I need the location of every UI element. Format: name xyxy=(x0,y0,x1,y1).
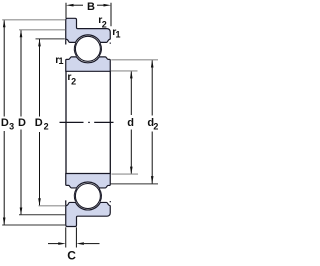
bearing section below axis (mirrored) xyxy=(66,174,111,227)
dimension D2 top leader to recess diameter xyxy=(36,38,65,40)
dimension D3 bottom arrowhead xyxy=(3,218,6,226)
dimension B right arrowhead xyxy=(104,4,112,7)
dimension C right arrowhead xyxy=(76,242,84,245)
dimension D bottom leader to outside diameter xyxy=(19,214,65,216)
dimension D3 vertical line xyxy=(3,20,5,225)
svg-text:2: 2 xyxy=(44,122,49,132)
svg-text:2: 2 xyxy=(102,19,107,29)
svg-text:1: 1 xyxy=(59,56,64,66)
dimension d bottom leader to bore diameter xyxy=(112,173,139,175)
dimension d2 top arrowhead xyxy=(151,60,154,68)
dimension D3 bottom leader to flange outside diameter xyxy=(2,224,65,226)
dimension d2 top leader to inner ring shoulder diameter xyxy=(111,59,158,61)
dimension d2 bottom arrowhead xyxy=(151,176,154,184)
svg-text:2: 2 xyxy=(71,76,76,86)
dimension C left arrowhead xyxy=(58,242,66,245)
svg-text:3: 3 xyxy=(9,122,14,132)
svg-text:d: d xyxy=(127,117,134,129)
dimension d top arrowhead xyxy=(130,71,133,79)
dimension D3 top leader to flange outside diameter xyxy=(2,19,65,21)
dimension D vertical line xyxy=(20,30,22,215)
svg-text:1: 1 xyxy=(116,30,121,40)
dimension D bottom arrowhead xyxy=(20,208,23,216)
dimension C: extension lines and dimension line xyxy=(48,227,100,247)
dimension d bottom arrowhead xyxy=(130,167,133,175)
dimension B: extension lines and dimension line xyxy=(66,3,111,27)
dimension B left arrowhead xyxy=(66,4,74,7)
left face silhouette line across bore xyxy=(65,71,67,173)
bearing section above axis xyxy=(66,18,111,71)
svg-text:C: C xyxy=(67,249,76,263)
svg-text:D: D xyxy=(18,117,26,129)
dimension D3 top arrowhead xyxy=(3,20,6,28)
dimension D2 bottom arrowhead xyxy=(38,198,41,206)
dimension d2 bottom leader to inner ring shoulder diameter xyxy=(111,183,159,185)
dimension D2 vertical line xyxy=(39,39,41,206)
right face silhouette line across bore xyxy=(109,71,111,173)
dimension D2 top arrowhead xyxy=(38,39,41,47)
dimension d vertical line xyxy=(130,71,132,174)
dimension d2 vertical line xyxy=(151,60,153,184)
dimension D top leader to outside diameter xyxy=(19,29,65,31)
svg-text:D: D xyxy=(1,117,9,129)
dimension D top arrowhead xyxy=(20,30,23,38)
dimension d top leader to bore diameter xyxy=(111,70,138,72)
centre axis dash-dot line xyxy=(60,121,114,123)
svg-text:D: D xyxy=(35,117,43,129)
svg-text:B: B xyxy=(87,1,95,13)
svg-text:2: 2 xyxy=(153,122,158,132)
dimension D2 bottom leader to recess diameter xyxy=(39,205,66,207)
